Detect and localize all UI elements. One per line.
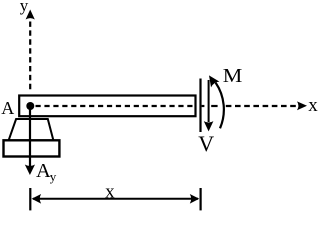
x-axis dashed centerline (left of cut) bbox=[36, 105, 193, 107]
dimension tick at cut bbox=[200, 188, 202, 210]
support trapezoid bbox=[9, 119, 54, 140]
dimension line x bbox=[33, 198, 198, 200]
moment arc M bbox=[216, 83, 224, 129]
svg-text:x: x bbox=[308, 95, 318, 116]
svg-text:y: y bbox=[50, 169, 57, 184]
y-axis dashed line bbox=[29, 22, 31, 93]
x-axis centerline dash at cut bbox=[202, 105, 205, 107]
shear arrow V bbox=[208, 80, 210, 122]
dimension left arrowhead bbox=[32, 194, 41, 204]
node A dot bbox=[26, 102, 34, 110]
x-axis dashed centerline (right of arc) bbox=[226, 105, 298, 107]
dimension right arrowhead bbox=[190, 194, 200, 204]
section cut line bbox=[199, 79, 201, 133]
moment arrowhead bbox=[205, 73, 220, 88]
svg-text:A: A bbox=[1, 98, 14, 118]
reaction arrow Ay bbox=[29, 108, 31, 166]
y-axis arrowhead bbox=[26, 10, 35, 20]
dimension tick at A bbox=[29, 188, 31, 210]
beam AB bbox=[19, 96, 195, 117]
svg-text:M: M bbox=[223, 64, 243, 87]
x-axis centerline dash before arc bbox=[211, 105, 217, 107]
support base rectangle bbox=[4, 140, 60, 156]
svg-text:y: y bbox=[20, 0, 29, 15]
svg-text:V: V bbox=[198, 131, 214, 156]
svg-text:x: x bbox=[105, 181, 115, 202]
x-axis arrowhead bbox=[297, 101, 307, 110]
